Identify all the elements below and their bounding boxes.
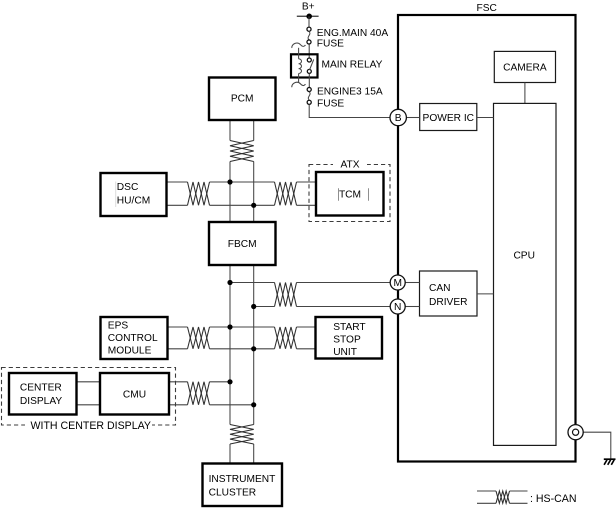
- svg-text:MAIN RELAY: MAIN RELAY: [322, 59, 383, 70]
- svg-text:DISPLAY: DISPLAY: [20, 396, 62, 407]
- junction dot at B+: [306, 13, 312, 19]
- power IC box: [420, 104, 477, 131]
- relay switch blade: [310, 59, 314, 70]
- wire connector B to power IC: [407, 117, 420, 119]
- wire camera to CPU: [524, 83, 526, 104]
- DSC HU/CM box: [101, 173, 167, 216]
- DSC pin separator tick: [115, 182, 117, 208]
- wire CMU pair to bus: [169, 382, 254, 405]
- node B+ terminal bar: [297, 15, 319, 17]
- twisted pair EPS: [188, 327, 210, 349]
- legend twisted pair symbol: [477, 491, 528, 503]
- connector B: [390, 109, 406, 125]
- PCM box: [209, 78, 276, 121]
- svg-text:MODULE: MODULE: [108, 345, 152, 356]
- wire DSC HU/CM pair to bus: [167, 182, 254, 205]
- ground symbol: [604, 459, 616, 465]
- relay coil lead bottom: [298, 74, 300, 83]
- twisted pair TCM: [275, 182, 297, 205]
- svg-text:FUSE: FUSE: [317, 98, 344, 109]
- svg-text:HU/CM: HU/CM: [117, 196, 150, 207]
- svg-text:ENGINE3 15A: ENGINE3 15A: [317, 86, 383, 97]
- CAN driver box: [420, 271, 478, 316]
- junction dot EPS bottom: [251, 346, 256, 351]
- svg-text:CMU: CMU: [123, 390, 146, 401]
- svg-text:N: N: [394, 302, 401, 313]
- wire TCM pair from bus: [230, 182, 316, 205]
- svg-text:CENTER: CENTER: [20, 383, 62, 394]
- FBCM box: [209, 222, 276, 265]
- relay coil continuation squiggle top: [292, 43, 306, 48]
- junction dot DSC bottom: [251, 203, 256, 208]
- wire EPS pair to bus: [168, 327, 254, 349]
- with center display dashed group box: [2, 368, 176, 432]
- wire connector N to CAN driver: [405, 306, 420, 308]
- TCM pin separator ticks: [339, 188, 369, 200]
- relay coil continuation squiggle bottom: [292, 82, 306, 87]
- svg-text:TCM: TCM: [339, 189, 361, 200]
- svg-text:CAMERA: CAMERA: [503, 63, 547, 74]
- start stop unit box: [316, 317, 383, 359]
- junction dot DSC top: [227, 179, 232, 184]
- svg-text:INSTRUMENT: INSTRUMENT: [209, 474, 276, 485]
- svg-text:B+: B+: [302, 2, 315, 13]
- junction dot CMU bottom: [251, 402, 256, 407]
- svg-text:POWER IC: POWER IC: [423, 113, 475, 124]
- wire start stop unit pair from bus: [230, 327, 316, 349]
- svg-text:B: B: [395, 113, 402, 124]
- wire CAN driver to CPU: [477, 293, 494, 295]
- wire fuse 2 to connector B: [309, 105, 390, 118]
- twisted pair DSC HU/CM: [188, 182, 210, 205]
- svg-text:CLUSTER: CLUSTER: [209, 487, 257, 498]
- junction dot CMU top: [227, 379, 232, 384]
- wire M/N pair from bus to connectors: [230, 283, 390, 307]
- svg-text:FBCM: FBCM: [228, 239, 257, 250]
- junction dot M row: [227, 280, 232, 285]
- svg-text:CONTROL: CONTROL: [108, 333, 158, 344]
- camera box: [494, 51, 555, 82]
- svg-text:DRIVER: DRIVER: [429, 297, 468, 308]
- junction dot EPS top: [227, 324, 232, 329]
- wire relay to fuse 2: [308, 74, 310, 88]
- fuse ENGINE3 15A: [307, 87, 311, 104]
- twisted pair above instrument cluster: [230, 425, 254, 445]
- wire B+ down to fuse 1: [308, 16, 310, 27]
- svg-text:DSC: DSC: [117, 182, 139, 193]
- connector M: [390, 275, 405, 290]
- svg-text:UNIT: UNIT: [333, 347, 357, 358]
- wire center display to CMU links: [77, 382, 101, 405]
- wire CAN bus line 2: [253, 120, 255, 464]
- relay coil L1: [299, 59, 302, 74]
- wire connector O to ground: [583, 432, 611, 458]
- CPU box: [494, 103, 557, 445]
- svg-text:PCM: PCM: [231, 94, 254, 105]
- svg-text:START: START: [333, 322, 365, 333]
- fuse ENG.MAIN 40A: [307, 27, 311, 44]
- junction dot N row: [251, 304, 256, 309]
- twisted pair M/N: [275, 283, 297, 307]
- wire connector M to CAN driver: [405, 282, 420, 284]
- connector O: [568, 425, 583, 440]
- svg-text:FSC: FSC: [477, 3, 497, 14]
- svg-text:ENG.MAIN 40A: ENG.MAIN 40A: [317, 28, 389, 39]
- svg-text:FUSE: FUSE: [317, 38, 344, 49]
- twisted pair CMU: [188, 382, 210, 405]
- svg-text:ATX: ATX: [340, 160, 359, 171]
- svg-text:STOP: STOP: [333, 334, 361, 345]
- wire CAN bus line 1: [229, 120, 231, 464]
- twisted pair below PCM: [230, 141, 254, 162]
- FSC module box: [398, 15, 576, 462]
- svg-text:M: M: [393, 278, 402, 289]
- svg-text:CPU: CPU: [513, 251, 535, 262]
- main relay U1: [291, 43, 318, 87]
- svg-text:CAN: CAN: [429, 283, 451, 294]
- instrument cluster box: [203, 464, 283, 507]
- EPS control module box: [101, 317, 168, 359]
- twisted pair start stop unit: [275, 327, 297, 349]
- ATX dashed group box: [309, 159, 390, 222]
- wire power IC to CPU: [477, 117, 494, 119]
- center display box: [9, 373, 77, 415]
- wire fuse 1 to relay: [308, 44, 310, 58]
- svg-text:EPS: EPS: [108, 321, 129, 332]
- TCM box: [316, 172, 384, 216]
- connector N: [390, 299, 405, 314]
- CMU box: [100, 373, 169, 415]
- relay switch contacts: [307, 58, 311, 62]
- svg-text:: HS-CAN: : HS-CAN: [530, 493, 577, 505]
- svg-text:WITH CENTER DISPLAY: WITH CENTER DISPLAY: [31, 420, 151, 432]
- relay coil lead top: [298, 48, 300, 59]
